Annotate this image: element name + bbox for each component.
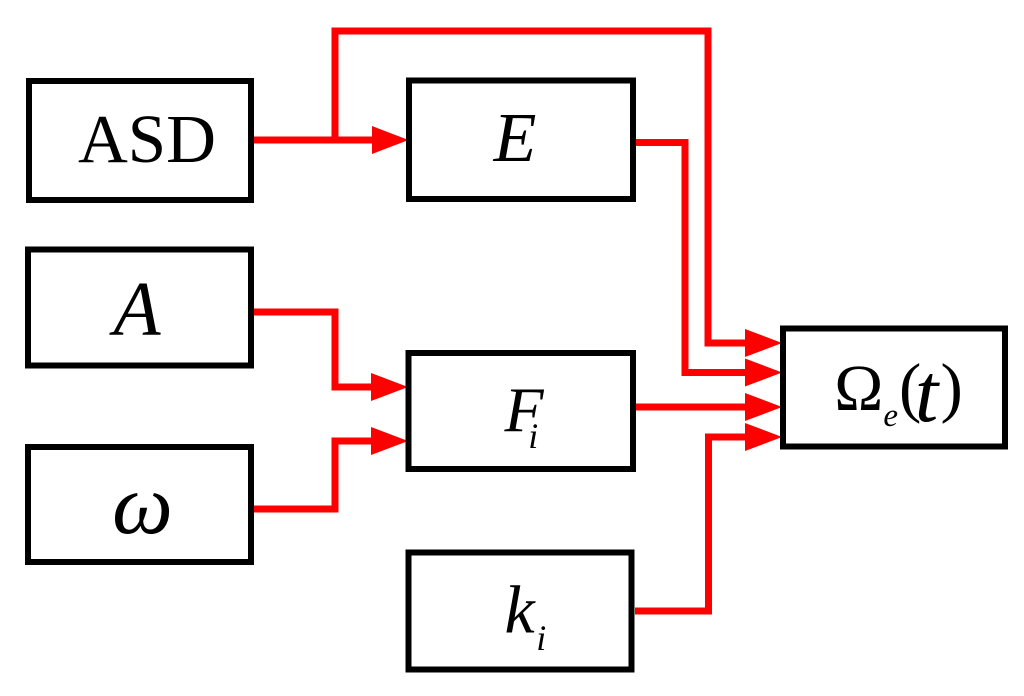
svg-text:i: i: [528, 416, 538, 456]
svg-text:E: E: [493, 100, 537, 177]
arrowhead 1 into Omega (from ASD top line): [745, 329, 782, 357]
wire ki to Omega: [635, 437, 746, 611]
label A: [108, 266, 161, 352]
svg-text:i: i: [536, 618, 546, 658]
svg-text:F: F: [504, 374, 545, 445]
svg-text:t: t: [915, 347, 941, 440]
wire A to Fi: [254, 312, 372, 387]
block ASD: [29, 81, 251, 200]
svg-text:): ): [941, 351, 963, 425]
label omega: [112, 456, 173, 552]
block A: [28, 250, 251, 366]
wire omega to Fi: [254, 441, 372, 509]
svg-text:ω: ω: [112, 456, 173, 552]
block E: [409, 81, 633, 200]
arrowhead into E: [372, 126, 409, 154]
block omega: [28, 447, 251, 562]
label ki: [505, 572, 547, 658]
label Fi: [504, 374, 545, 456]
svg-text:A: A: [108, 266, 161, 352]
arrowhead 4 into Omega (from ki): [745, 423, 782, 451]
block ki: [409, 553, 632, 670]
svg-text:k: k: [505, 572, 537, 648]
arrowhead 2 into Omega (from E): [745, 359, 782, 387]
arrowhead into Fi (from omega): [371, 427, 408, 455]
label E: [493, 100, 537, 177]
block Omega_e(t): [783, 329, 1005, 447]
arrowhead into Fi (from A): [371, 373, 408, 401]
wire ASD to E: [254, 137, 373, 144]
wire Fi to Omega: [636, 404, 746, 411]
arrowhead 3 into Omega (from Fi): [745, 393, 782, 421]
wire E to Omega: [636, 143, 746, 373]
svg-text:Ω: Ω: [834, 352, 883, 425]
svg-text:ASD: ASD: [78, 101, 216, 177]
label Omega_e(t): [834, 347, 963, 440]
svg-text:e: e: [883, 398, 898, 434]
wire ASD branch over top to Omega (node junction at x=335): [335, 31, 746, 343]
block Fi: [409, 353, 634, 469]
label ASD: [78, 101, 216, 177]
